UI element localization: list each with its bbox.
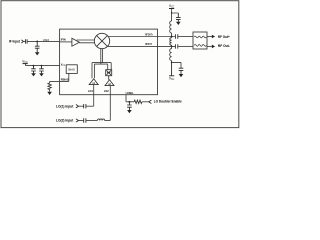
capacitor C2 (shunt, IF) bbox=[35, 41, 40, 52]
wire bbox=[172, 9, 179, 14]
wire (mixer LO stems) bbox=[101, 48, 103, 64]
wire (LO routing inner) bbox=[94, 64, 107, 78]
svg-text:BIAS: BIAS bbox=[69, 67, 76, 71]
port arrow RF Out- bbox=[212, 45, 215, 49]
capacitor C10 (VCC bypass) bbox=[31, 66, 36, 74]
capacitor C3 (series RFOUT+) bbox=[175, 34, 177, 38]
pin label RBIAS bbox=[61, 79, 69, 82]
node bbox=[129, 101, 131, 103]
pin label LO2 bbox=[104, 90, 109, 93]
svg-text:RFOUT+: RFOUT+ bbox=[145, 34, 153, 37]
wire bbox=[26, 64, 60, 66]
node bbox=[41, 65, 43, 67]
ground bbox=[35, 52, 40, 55]
wire RFOUT+ bbox=[108, 36, 175, 38]
amplifier A3 (LO2 buffer) bbox=[105, 80, 114, 86]
ground bbox=[31, 73, 36, 76]
ground bbox=[127, 110, 132, 113]
node bbox=[33, 65, 35, 67]
IC U1 outline bbox=[60, 29, 158, 95]
capacitor C1 (series, IF) bbox=[26, 39, 28, 43]
pin label RFOUT+ bbox=[145, 34, 153, 37]
LO(2) Input label bbox=[56, 119, 74, 123]
wire bbox=[86, 105, 94, 107]
wire bbox=[105, 120, 111, 122]
wire (LOSEL stub) bbox=[126, 95, 134, 102]
svg-text:VCC: VCC bbox=[61, 63, 66, 66]
capacitor C7 (series, LO1) bbox=[84, 104, 86, 108]
wire (LO1 riser) bbox=[93, 85, 95, 107]
node bbox=[171, 46, 173, 48]
wire bbox=[178, 36, 193, 38]
svg-text:100pF: 100pF bbox=[43, 39, 50, 42]
pin label VCC bbox=[61, 63, 66, 66]
svg-text:IFIN: IFIN bbox=[61, 39, 66, 42]
wire bbox=[60, 41, 72, 43]
svg-text:LO Doubler Enable: LO Doubler Enable bbox=[154, 100, 182, 104]
figure border frame bbox=[1, 1, 239, 128]
amplifier A1 (IF buffer) bbox=[72, 38, 80, 46]
capacitor C9 (LOSEL bypass) bbox=[127, 102, 132, 110]
pin label IFIN bbox=[61, 39, 66, 42]
wire bbox=[142, 101, 149, 103]
wire bbox=[79, 105, 84, 107]
ground bbox=[39, 73, 44, 76]
svg-text:IF Input: IF Input bbox=[9, 40, 21, 44]
ground bbox=[179, 74, 184, 77]
node bbox=[171, 62, 173, 64]
svg-text:RBIAS: RBIAS bbox=[61, 79, 69, 82]
wire RF Out+ bbox=[207, 36, 212, 38]
VCC (lower) bbox=[169, 62, 174, 75]
wire bbox=[79, 120, 84, 122]
wire bbox=[23, 40, 25, 42]
wire RFOUT- bbox=[108, 45, 176, 47]
frequency doubler X1 bbox=[106, 70, 112, 76]
capacitor C6 (VCC bypass bottom) bbox=[179, 68, 184, 74]
wire (bias to rbias pin) bbox=[50, 73, 69, 81]
balun T1 bbox=[193, 32, 207, 49]
svg-text:LOSEL: LOSEL bbox=[126, 92, 134, 95]
svg-text:LO2: LO2 bbox=[104, 90, 109, 93]
wire RF Out- bbox=[207, 45, 212, 47]
svg-text:RF Out+: RF Out+ bbox=[218, 35, 230, 39]
capacitor C8 (series, LO2) bbox=[84, 118, 86, 122]
inductor L2 (mid) bbox=[170, 37, 172, 47]
capacitor C4 (series RFOUT-) bbox=[175, 44, 177, 48]
ground bbox=[176, 22, 181, 25]
wire bbox=[178, 45, 193, 47]
pin label LO1 bbox=[88, 90, 93, 93]
IF Input label bbox=[9, 40, 21, 44]
capacitor C5 (VCC bypass top) bbox=[176, 13, 181, 22]
VCC (left) bbox=[22, 59, 28, 64]
inductor L3 (RF choke bottom) bbox=[170, 46, 172, 62]
svg-text:LO(1) Input: LO(1) Input bbox=[56, 104, 74, 108]
value label C2 bbox=[43, 39, 50, 42]
wire bbox=[27, 40, 59, 42]
VCC (top right) bbox=[169, 4, 175, 9]
svg-text:RF Out-: RF Out- bbox=[218, 44, 230, 48]
inductor L4 (LO2 series) bbox=[97, 119, 104, 121]
node bbox=[171, 12, 173, 14]
wire (diff pair to mixer) bbox=[77, 40, 95, 43]
node (IF junction) bbox=[36, 41, 38, 43]
port arrow RF Out+ bbox=[212, 35, 215, 39]
node bbox=[171, 36, 173, 38]
svg-text:RFOUT-: RFOUT- bbox=[145, 43, 152, 46]
LO(1) Input label bbox=[56, 104, 74, 108]
svg-text:LO(2) Input: LO(2) Input bbox=[56, 119, 74, 123]
resistor R1 bbox=[134, 100, 142, 103]
amplifier A2 (LO1 buffer) bbox=[89, 79, 98, 85]
wire bbox=[172, 62, 181, 68]
LO1 input port bbox=[76, 105, 79, 108]
pin label LOSEL bbox=[126, 92, 134, 95]
resistor R2 (bias set) bbox=[48, 81, 51, 91]
mixer U1a (circle with X) bbox=[94, 33, 109, 48]
wire bbox=[86, 120, 97, 122]
ground bbox=[47, 92, 52, 95]
wire (LO2 riser) bbox=[109, 86, 111, 121]
LO2 input port bbox=[76, 119, 79, 122]
pin label RFOUT- bbox=[145, 43, 152, 46]
IF input port bbox=[21, 40, 23, 43]
svg-text:LO1: LO1 bbox=[88, 90, 93, 93]
capacitor C11 (VCC bypass) bbox=[39, 66, 44, 74]
LO Doubler Enable label bbox=[154, 100, 182, 104]
wire (LO routing outer) bbox=[92, 63, 111, 79]
bias block bbox=[66, 65, 77, 74]
inductor L1 (RF choke top) bbox=[170, 13, 172, 37]
LO Doubler Enable port bbox=[149, 100, 152, 103]
